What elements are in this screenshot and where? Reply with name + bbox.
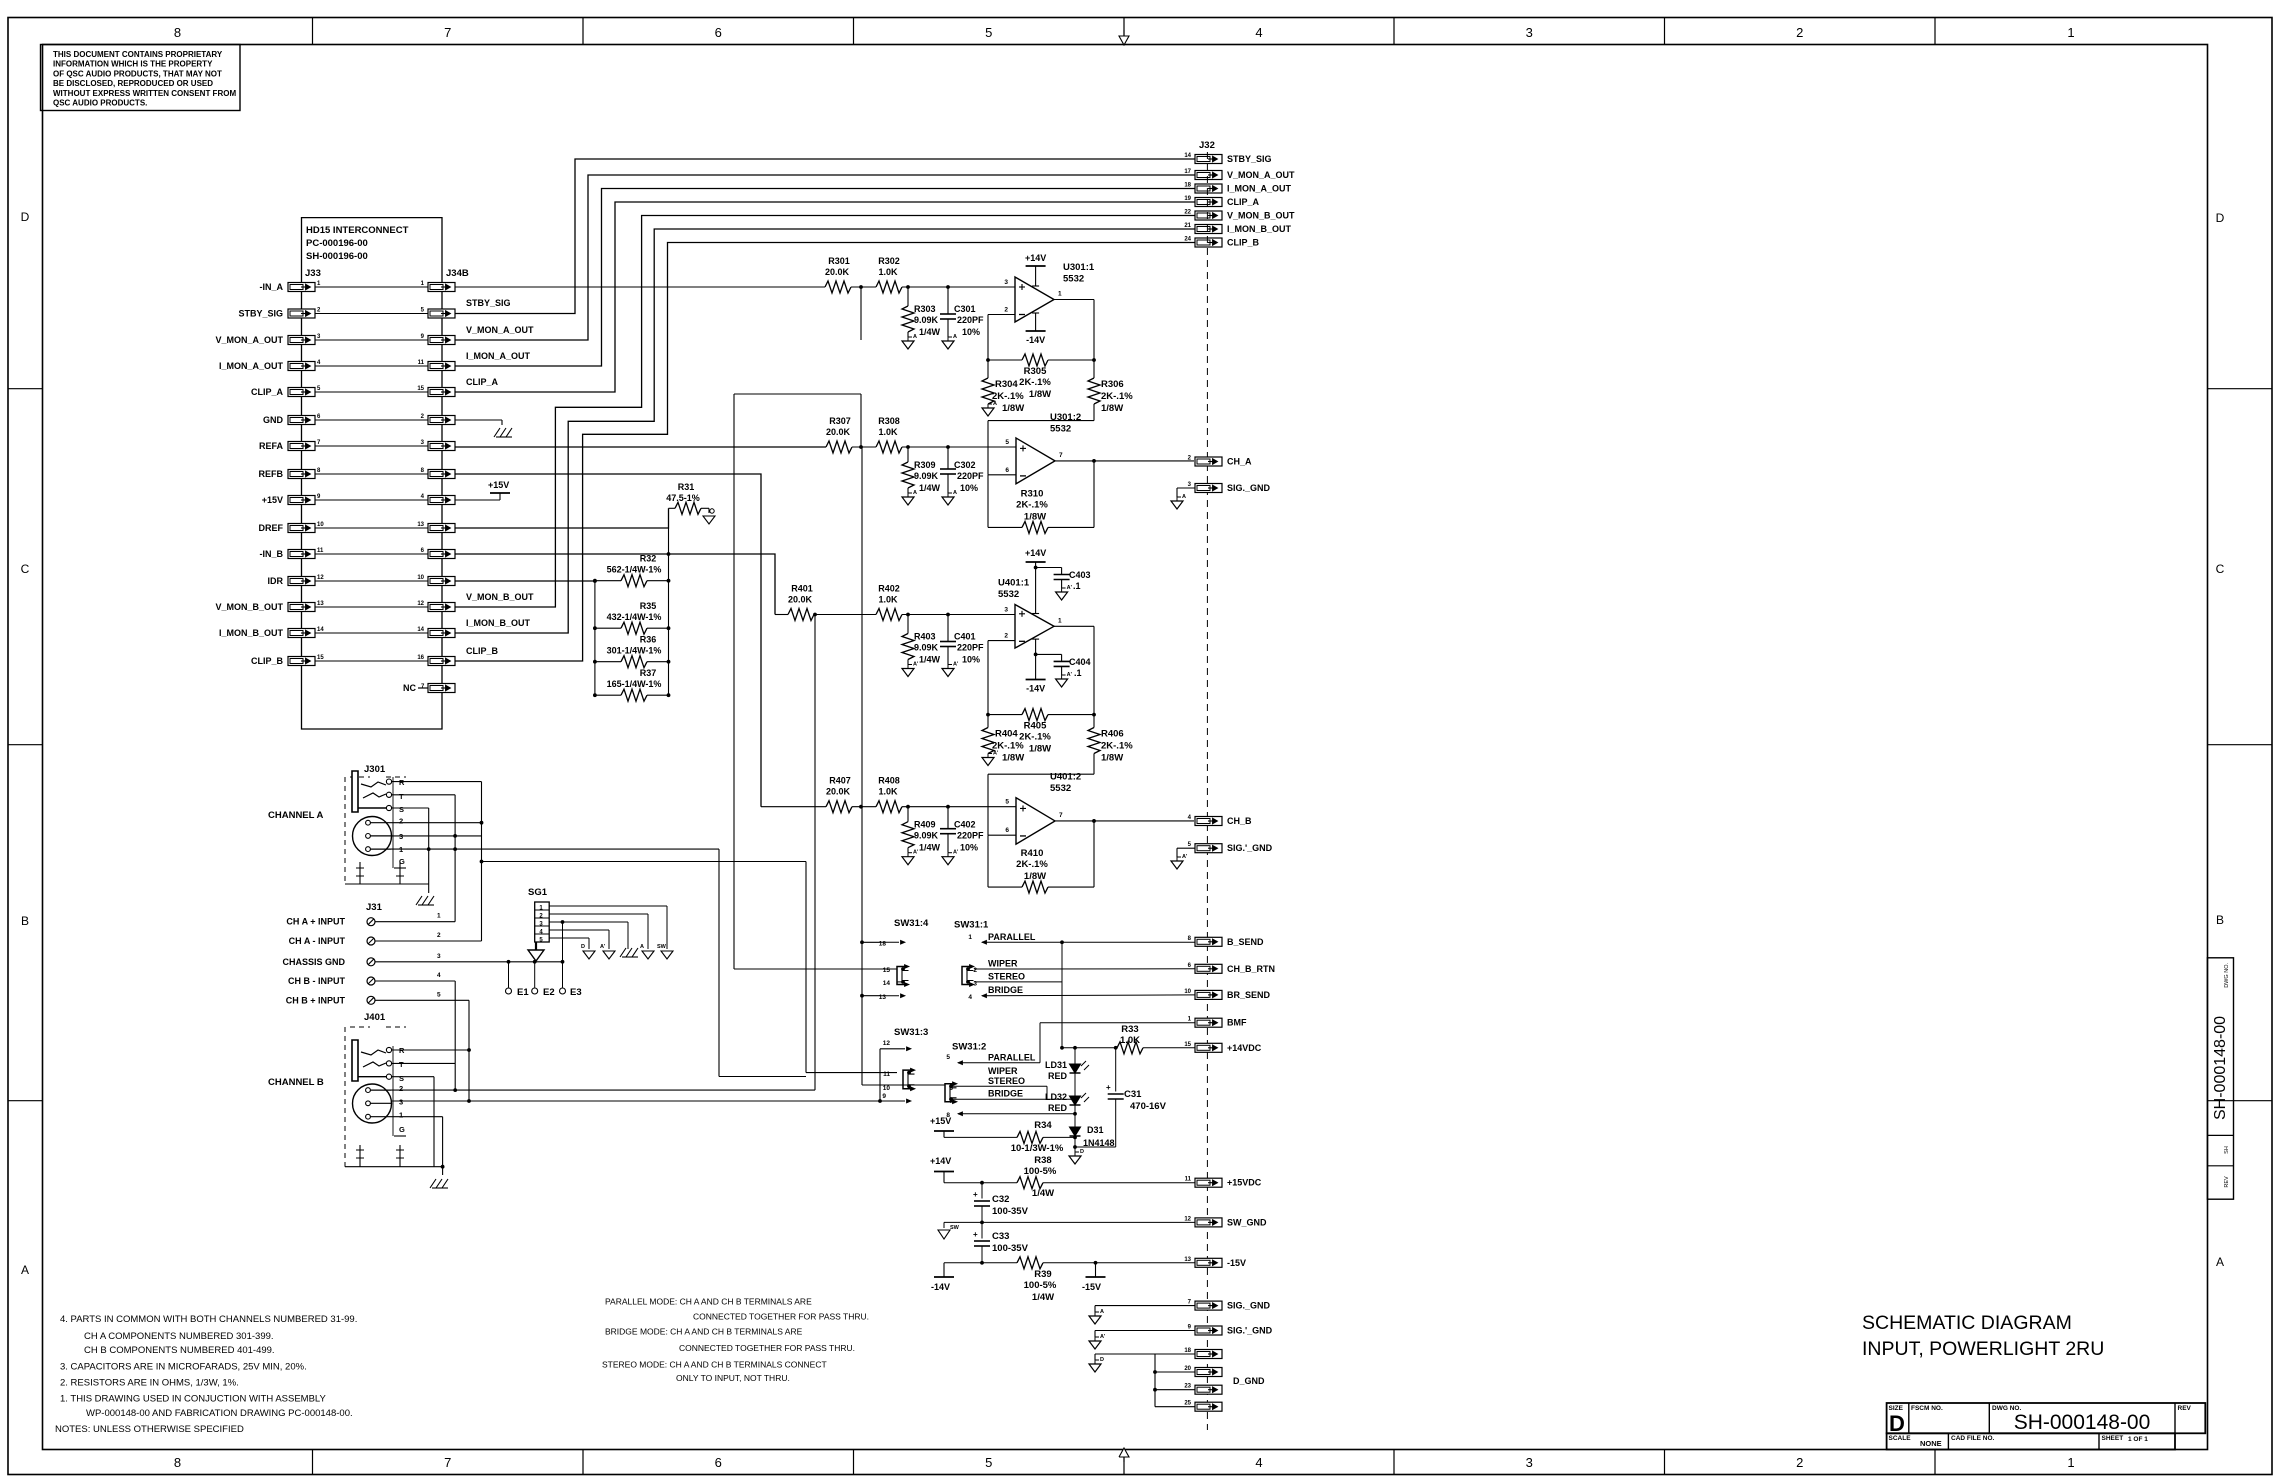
svg-text:STEREO MODE: CH A AND CH B TER: STEREO MODE: CH A AND CH B TERMINALS CON… [602,1359,827,1369]
svg-text:10-1/3W-1%: 10-1/3W-1% [1011,1143,1064,1154]
ground flag at C302 [942,497,954,505]
title block [1887,1403,2206,1450]
ground flag at R404 [982,758,994,766]
svg-text:CHANNEL A: CHANNEL A [268,810,324,821]
svg-text:A: A [913,490,917,496]
power -14V U401:1 [1026,639,1046,693]
svg-text:18: 18 [879,941,887,948]
svg-text:CH B - INPUT: CH B - INPUT [288,976,345,986]
svg-text:6: 6 [715,1455,722,1470]
connector pin 23 D_GND [1184,1384,1222,1395]
wire SW31:2 PARALLEL to BMF [958,1023,1195,1063]
svg-text:-14V: -14V [1026,335,1045,345]
wire R401 input row [775,613,1015,617]
svg-text:BR_SEND: BR_SEND [1227,990,1271,1000]
svg-text:R303: R303 [914,304,936,314]
wire SW31:2 STEREO [951,1086,1047,1099]
svg-text:13: 13 [879,994,887,1001]
svg-text:CH_B: CH_B [1227,816,1252,826]
svg-text:1/8W: 1/8W [1029,389,1051,400]
wire CLIP_B bus [455,243,1195,662]
svg-text:301-1/4W-1%: 301-1/4W-1% [607,646,662,656]
wire SW31:2 BRIDGE to LED string [951,1098,1075,1100]
svg-text:2K-.1%: 2K-.1% [1016,859,1048,870]
svg-text:BRIDGE: BRIDGE [988,1089,1023,1099]
svg-text:BE DISCLOSED, REPRODUCED OR US: BE DISCLOSED, REPRODUCED OR USED [53,79,213,88]
diode D31 1N4148 [1070,1105,1115,1152]
capacitor C32 100-35V [973,1183,1029,1223]
resistor R404 2K [982,715,1024,764]
capacitor C302 220PF [940,447,984,493]
svg-text:5532: 5532 [1050,783,1071,794]
svg-text:12: 12 [417,601,424,607]
wire R407 input row [761,805,1016,809]
svg-text:R309: R309 [914,460,936,470]
svg-text:1: 1 [968,934,972,941]
svg-text:CAD FILE NO.: CAD FILE NO. [1951,1435,1995,1442]
svg-text:A': A' [1067,672,1073,678]
svg-text:SH: SH [2224,1146,2230,1154]
svg-text:10%: 10% [960,483,978,493]
resistor R31 [666,482,715,524]
svg-text:2K-.1%: 2K-.1% [1019,377,1051,388]
svg-text:220PF: 220PF [957,315,984,325]
svg-text:100-35V: 100-35V [992,1243,1029,1254]
wire feedback to U301:2 [988,421,1094,475]
svg-text:2: 2 [1796,1455,1803,1470]
wire XLR B pin1 to ground [391,1116,443,1118]
svg-text:+15VDC: +15VDC [1227,1178,1262,1188]
svg-text:CLIP_A: CLIP_A [1227,197,1260,207]
svg-text:11: 11 [883,1071,890,1078]
svg-text:R403: R403 [914,632,936,642]
svg-text:7: 7 [444,25,451,40]
svg-text:+14V: +14V [1025,548,1046,558]
wire SW31:1 WIPER to CH_B_RTN [974,968,1195,970]
svg-text:R405: R405 [1024,721,1047,732]
connector J33 [288,268,324,666]
svg-text:1: 1 [1058,617,1062,624]
svg-text:1/8W: 1/8W [1101,753,1123,764]
svg-text:T: T [399,792,404,801]
wire SW_GND row [944,1221,1195,1229]
ground flag at C401 [942,669,954,677]
svg-text:5: 5 [437,991,441,998]
svg-text:-15V: -15V [1227,1258,1246,1268]
connector pin 13 -15V [1184,1257,1246,1268]
svg-text:REFA: REFA [259,441,284,451]
svg-text:220PF: 220PF [957,831,984,841]
svg-text:5: 5 [1005,799,1009,806]
svg-text:J31: J31 [366,902,383,913]
svg-text:24: 24 [1184,237,1191,243]
svg-text:T: T [399,1060,404,1069]
wire I_MON_B_OUT bus [455,229,1195,633]
svg-text:R36: R36 [640,635,657,645]
svg-text:1/4W: 1/4W [1032,1188,1054,1199]
capacitor C33 100-35V [973,1222,1029,1262]
svg-text:CLIP_B: CLIP_B [1227,238,1260,248]
svg-text:C401: C401 [954,632,976,642]
connector pin 1 BMF [1188,1017,1247,1028]
svg-text:20.0K: 20.0K [826,787,851,797]
svg-text:BRIDGE MODE: CH A AND CH B TER: BRIDGE MODE: CH A AND CH B TERMINALS ARE [605,1326,803,1336]
capacitor C301 220PF [940,287,984,337]
ground at J401 [345,1117,448,1188]
svg-text:V_MON_B_OUT: V_MON_B_OUT [215,602,283,612]
svg-text:I_MON_A_OUT: I_MON_A_OUT [219,361,284,371]
svg-text:100-5%: 100-5% [1024,1280,1057,1291]
svg-text:G: G [399,1125,405,1134]
connector pin 10 BR_SEND [1184,989,1270,1000]
op-amp U401:1 5532 [998,578,1062,649]
wire feedback to U401:2 [988,774,1094,835]
svg-text:C33: C33 [992,1231,1009,1242]
resistor R308 1.0K [876,416,902,453]
proprietary note box [41,45,241,111]
svg-text:A': A' [913,662,919,668]
ground flag at R409 [902,857,914,865]
wire CH B + INPUT [375,1000,471,1052]
svg-text:U301:2: U301:2 [1050,412,1081,423]
resistor R309 9.09K [902,447,941,493]
connector pin 5 SIG.'_GND [1188,842,1273,853]
svg-text:FSCM NO.: FSCM NO. [1911,1405,1943,1412]
svg-text:A: A [1182,494,1186,500]
svg-text:220PF: 220PF [957,471,984,481]
svg-text:SHEET: SHEET [2102,1435,2124,1442]
svg-text:STBY_SIG: STBY_SIG [238,309,283,319]
svg-text:R304: R304 [995,379,1018,390]
svg-text:9.09K: 9.09K [914,831,939,841]
svg-text:D: D [1080,1149,1084,1155]
capacitor C402 220PF [940,807,984,853]
connector pin 12 SW_GND [1184,1216,1267,1227]
svg-text:CLIP_B: CLIP_B [251,656,284,666]
svg-text:J34B: J34B [446,268,469,279]
svg-text:1/8W: 1/8W [1024,511,1046,522]
svg-text:R308: R308 [878,416,900,426]
svg-text:6: 6 [1005,827,1009,834]
connector pin 6 CH_B_RTN [1188,963,1275,974]
svg-text:2: 2 [399,1084,403,1093]
svg-text:SH-000148-00: SH-000148-00 [2014,1411,2151,1434]
svg-text:1/8W: 1/8W [1101,403,1123,414]
svg-text:21: 21 [1184,223,1191,229]
svg-text:R301: R301 [828,256,850,266]
svg-text:V_MON_B_OUT: V_MON_B_OUT [1227,211,1295,221]
svg-text:C302: C302 [954,460,976,470]
wire R401 junction to XLR B hot [814,615,816,1091]
connector pin 4 CH_B [1188,815,1252,826]
svg-text:562-1/4W-1%: 562-1/4W-1% [607,565,662,575]
svg-text:1/4W: 1/4W [919,483,941,493]
svg-text:1: 1 [437,913,441,920]
svg-text:E3: E3 [570,987,582,998]
resistor R407 20.0K [826,776,852,813]
svg-text:STEREO: STEREO [988,1076,1025,1086]
wire XLR A pin1 net to SW31:3 [719,849,806,1076]
svg-text:I_MON_B_OUT: I_MON_B_OUT [466,618,531,628]
svg-text:+15V: +15V [488,480,509,490]
svg-text:U301:1: U301:1 [1063,262,1095,273]
resistor R39 100-5% [944,1257,1195,1303]
svg-text:SW31:2: SW31:2 [952,1042,986,1053]
svg-text:CLIP_B: CLIP_B [466,646,499,656]
connector pin 25 [1184,1401,1222,1412]
op-amp U301:2 5532 [1005,412,1081,484]
svg-text:CHANNEL B: CHANNEL B [268,1077,324,1088]
svg-text:5: 5 [985,25,992,40]
connector XLR channel B [353,1084,407,1136]
svg-text:REV: REV [2178,1405,2192,1412]
svg-text:R: R [399,778,405,787]
resistor R409 9.09K [902,807,941,853]
svg-text:CLIP_A: CLIP_A [251,387,284,397]
ground flag at R403 [902,669,914,677]
wires SG1 rows to ground flags [549,906,667,962]
svg-text:B: B [21,914,29,928]
svg-text:12: 12 [1184,1216,1191,1222]
svg-text:+15V: +15V [262,495,283,505]
ground flag at C404 [1056,679,1068,687]
svg-text:4: 4 [1255,1455,1262,1470]
svg-text:-IN_A: -IN_A [259,282,283,292]
svg-text:R305: R305 [1024,366,1047,377]
resistor R33 1.0K [1062,1024,1195,1054]
svg-text:DREF: DREF [259,523,284,533]
svg-text:15: 15 [883,967,891,974]
resistor R310 feedback 2K [988,461,1094,534]
wire jack B rows [391,1050,469,1167]
svg-text:15: 15 [317,655,324,661]
svg-text:20.0K: 20.0K [826,427,851,437]
svg-text:SW_GND: SW_GND [1227,1217,1267,1227]
svg-text:RED: RED [1048,1071,1068,1081]
svg-text:1. THIS DRAWING USED IN CONJ: 1. THIS DRAWING USED IN CONJUCTION WITH … [60,1394,327,1405]
svg-text:D: D [1100,1357,1104,1363]
svg-text:V_MON_A_OUT: V_MON_A_OUT [466,325,534,335]
svg-text:A: A [21,1263,29,1277]
svg-text:WP-000148-00 AND FABRICATION D: WP-000148-00 AND FABRICATION DRAWING PC-… [86,1408,353,1419]
svg-text:8: 8 [174,25,181,40]
connector pin 9 SIG.'_GND [1188,1325,1273,1336]
svg-text:SH-000196-00: SH-000196-00 [306,251,368,262]
svg-text:GND: GND [263,415,284,425]
svg-text:PARALLEL: PARALLEL [988,932,1036,942]
wire SW31:1 PARALLEL to B_SEND [982,940,1195,944]
wire I_MON_A_OUT bus [455,189,1195,367]
svg-text:DWG NO.: DWG NO. [2224,963,2230,988]
svg-text:5532: 5532 [1050,424,1071,435]
wire -IN_B to R401 [455,554,775,615]
svg-text:-15V: -15V [1082,1282,1101,1292]
svg-text:A: A [993,401,997,407]
wire U301:2 output to connector [1055,459,1194,463]
resistor R402 1.0K [876,584,902,621]
wire SW31:1 BRIDGE to BR_SEND [982,994,1195,997]
svg-text:47.5-1%: 47.5-1% [666,493,700,503]
svg-text:18: 18 [1184,1348,1191,1354]
svg-text:D_GND: D_GND [1233,1376,1265,1386]
ground flag D at D31 [1069,1156,1081,1164]
svg-text:19: 19 [1184,196,1191,202]
resistor R306 2K [1088,360,1133,421]
switch SW31:1 [954,920,1036,1002]
resistor R403 9.09K [902,615,941,665]
svg-text:C301: C301 [954,304,976,314]
svg-text:A': A' [913,850,919,856]
wire SW31:1 STEREO to BR_SEND [974,942,1062,982]
svg-text:SW31:1: SW31:1 [954,920,989,931]
svg-text:220PF: 220PF [957,643,984,653]
svg-text:20.0K: 20.0K [825,267,850,277]
svg-text:R307: R307 [829,416,851,426]
resistor R406 2K [1088,715,1133,775]
svg-text:11: 11 [418,360,425,366]
wire CH B - INPUT [375,981,455,1063]
svg-text:+14VDC: +14VDC [1227,1043,1262,1053]
svg-text:CONNECTED TOGETHER FOR PASS TH: CONNECTED TOGETHER FOR PASS THRU. [679,1343,855,1353]
svg-text:9: 9 [882,1093,886,1100]
svg-text:SIG._GND: SIG._GND [1227,483,1271,493]
ground flag SW at SG1 [657,944,673,959]
resistor R32 [593,554,670,587]
resistor R408 1.0K [876,776,902,813]
svg-text:4. PARTS IN COMMON WITH BOTH: 4. PARTS IN COMMON WITH BOTH CHANNELS NU… [60,1314,357,1325]
svg-text:1/4W: 1/4W [919,327,941,337]
svg-text:3: 3 [1004,279,1008,286]
svg-text:10%: 10% [962,655,980,665]
wire V_MON_A_OUT bus [455,175,1195,340]
svg-text:1.0K: 1.0K [878,595,898,605]
spark gap SG1 [528,887,549,944]
svg-text:2: 2 [1004,307,1008,314]
svg-text:5: 5 [946,1054,950,1061]
svg-text:R401: R401 [791,584,813,594]
svg-text:2K-.1%: 2K-.1% [1016,499,1048,510]
svg-text:R310: R310 [1021,488,1044,499]
svg-text:A: A [2216,1255,2224,1269]
capacitor C403 .1 [1034,566,1091,591]
svg-text:2. RESISTORS ARE IN OHMS, 1/: 2. RESISTORS ARE IN OHMS, 1/3W, 1%. [60,1378,239,1389]
wire R307 junction to SW31:4 pin15 [734,394,897,969]
svg-text:S: S [399,1074,404,1083]
svg-text:11: 11 [1185,1177,1192,1183]
svg-text:15: 15 [1184,1042,1191,1048]
wire U401:2 output to connector [1055,819,1194,823]
svg-text:CH A + INPUT: CH A + INPUT [286,917,345,927]
svg-text:CH B COMPONENTS NUMBERED 401-4: CH B COMPONENTS NUMBERED 401-499. [84,1345,275,1356]
ground flag at C301 [942,341,954,349]
connector XLR channel A [353,817,407,869]
svg-text:1/8W: 1/8W [1002,753,1024,764]
svg-text:SH-000148-00: SH-000148-00 [2212,1016,2229,1120]
svg-text:SIG.'_GND: SIG.'_GND [1227,843,1273,853]
connector pin 15 +14VDC [1184,1042,1261,1053]
wire CH A + INPUT [375,795,455,922]
svg-text:1.0K: 1.0K [878,427,898,437]
svg-text:I_MON_B_OUT: I_MON_B_OUT [1227,224,1292,234]
svg-text:STBY_SIG: STBY_SIG [466,298,511,308]
terminal E2 [532,962,555,998]
wire XLR B pin2 row [391,1063,815,1092]
svg-text:A': A' [1100,1334,1106,1340]
ground chassis at SG1 [620,948,638,957]
svg-text:A': A' [1182,854,1188,860]
power +14V at R38 [930,1156,954,1183]
terminal E3 [560,962,582,998]
svg-text:1/4W: 1/4W [1032,1292,1054,1303]
svg-text:C402: C402 [954,820,976,830]
svg-text:+14V: +14V [1025,253,1046,263]
svg-text:INFORMATION WHICH IS THE PROPE: INFORMATION WHICH IS THE PROPERTY [53,60,213,69]
svg-text:A': A' [953,850,959,856]
svg-text:PC-000196-00: PC-000196-00 [306,238,368,249]
svg-text:A': A' [953,662,959,668]
svg-text:SCALE: SCALE [1889,1435,1912,1442]
svg-text:D: D [2216,211,2225,225]
wire XLR A rows [391,823,719,851]
svg-text:CH_B_RTN: CH_B_RTN [1227,964,1275,974]
svg-text:S: S [399,805,404,814]
ground chassis at J34B pin2 [455,420,512,437]
svg-text:CLIP_A: CLIP_A [466,377,499,387]
LED LD32 RED [1045,1073,1089,1113]
svg-text:2: 2 [1004,633,1008,640]
svg-text:U401:1: U401:1 [998,578,1030,589]
svg-text:9.09K: 9.09K [914,471,939,481]
svg-text:3: 3 [1004,607,1008,614]
power +15V at R34 [930,1116,954,1137]
svg-text:D: D [21,210,30,224]
svg-text:10%: 10% [960,843,978,853]
resistor R410 feedback 2K [988,821,1094,893]
resistor R401 20.0K [788,584,814,621]
connector J401 jack channel B [345,1012,406,1167]
LED LD31 RED [1045,1048,1089,1081]
mode notes text [602,1296,869,1383]
svg-text:C31: C31 [1124,1089,1142,1100]
svg-text:2: 2 [437,932,441,939]
connector pin 2 CH_A [1188,456,1252,467]
svg-text:SW31:3: SW31:3 [894,1027,928,1038]
svg-text:1/4W: 1/4W [919,843,941,853]
svg-text:J401: J401 [364,1012,386,1023]
svg-text:4: 4 [968,994,972,1001]
svg-text:A: A [1100,1309,1104,1315]
svg-text:6: 6 [1005,467,1009,474]
svg-text:+14V: +14V [930,1156,951,1166]
svg-text:D31: D31 [1087,1125,1104,1135]
switch SW31:4 [879,918,929,1001]
svg-text:2: 2 [1796,25,1803,40]
ground flag D and D_GND wires [1089,1354,1195,1407]
svg-text:10%: 10% [962,327,980,337]
svg-text:D: D [1889,1411,1905,1436]
svg-text:7: 7 [1059,452,1063,459]
ground flag A' at SG1 [600,944,615,959]
svg-text:10: 10 [417,575,424,581]
svg-text:B_SEND: B_SEND [1227,937,1264,947]
svg-text:23: 23 [1184,1384,1191,1390]
svg-text:R31: R31 [678,482,695,492]
svg-text:1/4W: 1/4W [919,655,941,665]
svg-text:NOTES: UNLESS OTHERWISE SPECIF: NOTES: UNLESS OTHERWISE SPECIFIED [55,1424,244,1435]
power -15V bar [1082,1263,1106,1292]
wire IDR chain row [455,580,595,582]
svg-text:2K-.1%: 2K-.1% [1101,741,1133,752]
